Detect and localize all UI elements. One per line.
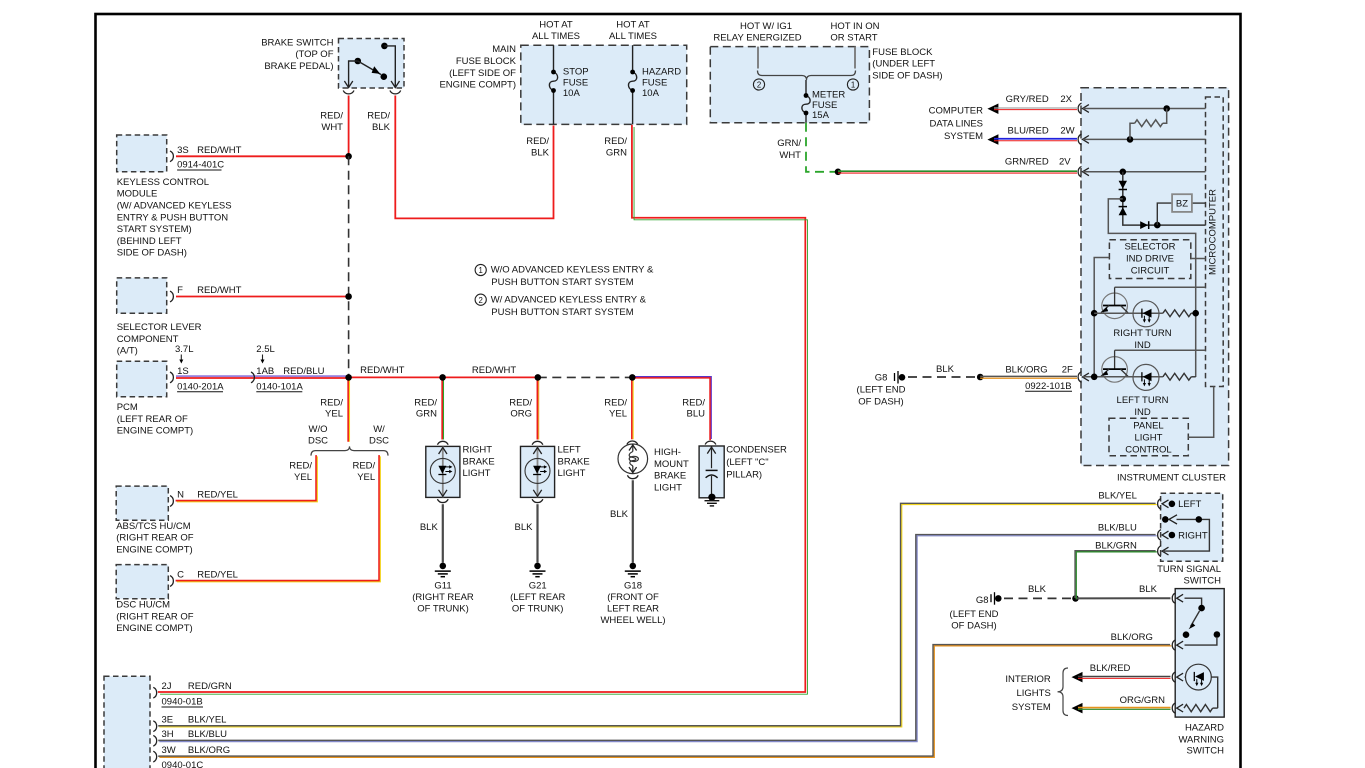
panel light control label <box>1125 420 1171 455</box>
label F RED/WHT <box>177 285 242 296</box>
svg-text:LEFT: LEFT <box>558 445 581 456</box>
svg-text:LEFT REAR: LEFT REAR <box>607 604 659 615</box>
ground reference G8 (hazard) <box>991 592 1002 605</box>
ground G11 label <box>412 581 474 615</box>
svg-text:3H: 3H <box>162 729 174 740</box>
ABS/TCS label <box>116 521 194 556</box>
svg-text:F: F <box>177 285 183 296</box>
connector above left brake light <box>532 441 543 444</box>
label 3.7L with arrow <box>175 344 194 363</box>
meter fuse F3 lead <box>805 80 807 123</box>
svg-text:3E: 3E <box>162 715 174 726</box>
svg-text:FUSE: FUSE <box>642 77 667 88</box>
svg-text:CONTROL: CONTROL <box>1125 444 1171 455</box>
svg-text:DSC HU/CM: DSC HU/CM <box>116 600 170 611</box>
wire ORG/GRN to hazard <box>1078 708 1171 710</box>
label 3E BLK/YEL <box>162 715 227 726</box>
svg-text:RELAY ENERGIZED: RELAY ENERGIZED <box>713 33 801 44</box>
diode D1 (down) <box>1119 181 1127 190</box>
right brake light label <box>463 445 495 480</box>
connector 2J <box>153 687 156 698</box>
condenser C1 box <box>699 446 724 498</box>
panel light control box <box>1109 418 1188 455</box>
svg-text:BLK: BLK <box>1028 584 1047 595</box>
svg-text:SELECTOR LEVER: SELECTOR LEVER <box>117 322 202 333</box>
wire common to BLK/GRN <box>1164 519 1209 551</box>
label RED/YEL (J1) <box>320 398 343 420</box>
ground G11 <box>435 563 451 577</box>
svg-text:LIGHT: LIGHT <box>1135 432 1163 443</box>
svg-text:ENGINE COMPT): ENGINE COMPT) <box>116 544 193 555</box>
selector IND drive label <box>1124 242 1175 277</box>
stop fuse F1 lead <box>553 45 555 124</box>
label BLK (G18) <box>610 509 629 520</box>
svg-text:BRAKE: BRAKE <box>558 456 590 467</box>
wire BLK/BLU to turn signal RIGHT <box>158 535 1157 742</box>
svg-text:BLK/ORG: BLK/ORG <box>1111 632 1153 643</box>
svg-text:BZ: BZ <box>1176 198 1188 209</box>
svg-text:STOP: STOP <box>563 66 589 77</box>
svg-text:WHEEL WELL): WHEEL WELL) <box>600 615 665 626</box>
LED right turn indicator <box>1133 301 1159 327</box>
node RIGHT contact <box>1169 532 1176 539</box>
svg-text:N: N <box>177 490 184 501</box>
svg-text:BLK/YEL: BLK/YEL <box>188 715 227 726</box>
svg-text:G11: G11 <box>434 581 451 592</box>
selector lever label <box>117 322 202 357</box>
svg-text:LIGHT: LIGHT <box>654 482 682 493</box>
right brake light internals <box>430 446 455 497</box>
svg-text:0922-101B: 0922-101B <box>1025 381 1071 392</box>
svg-text:BLK: BLK <box>936 364 955 375</box>
connector 3W <box>153 751 156 762</box>
svg-text:BLK/GRN: BLK/GRN <box>1095 540 1137 551</box>
wire BLK/RED to hazard <box>1078 677 1171 679</box>
high-mount lamp L1 <box>618 444 648 474</box>
label RED/GRN (drop) <box>414 398 437 420</box>
wire dashed vertical (brake feed) <box>348 156 350 377</box>
svg-text:OF DASH): OF DASH) <box>951 621 996 632</box>
svg-text:CONDENSER: CONDENSER <box>726 445 787 456</box>
svg-text:LEFT TURN: LEFT TURN <box>1117 395 1169 406</box>
label BLK/RED <box>1090 663 1131 674</box>
svg-text:ALL TIMES: ALL TIMES <box>532 31 580 42</box>
svg-text:RED/: RED/ <box>320 398 343 409</box>
label G8 (hazard) <box>976 595 989 606</box>
label LEFT <box>1178 499 1201 510</box>
ground G18 <box>625 563 641 577</box>
node junction 3S/brake switch <box>345 153 352 160</box>
svg-text:IND DRIVE: IND DRIVE <box>1126 254 1174 265</box>
transistor Q2 (left turn) <box>1101 350 1128 382</box>
wire BLK high-mount ground <box>632 480 634 562</box>
svg-text:3W: 3W <box>162 745 176 756</box>
label W/ DSC <box>369 424 389 447</box>
svg-text:DATA LINES: DATA LINES <box>930 118 984 129</box>
svg-text:SYSTEM: SYSTEM <box>944 131 983 142</box>
svg-text:BRAKE PEDAL): BRAKE PEDAL) <box>264 61 333 72</box>
hazard fuse F2 <box>628 70 636 93</box>
svg-text:(BEHIND LEFT: (BEHIND LEFT <box>117 236 182 247</box>
svg-text:LIGHTS: LIGHTS <box>1016 688 1050 699</box>
hazard fuse label 10A <box>642 66 681 99</box>
svg-text:FUSE: FUSE <box>563 77 588 88</box>
wire BLK dashed from G8 <box>908 376 980 378</box>
label BLK/YEL <box>1098 491 1137 502</box>
svg-text:CIRCUIT: CIRCUIT <box>1131 266 1170 277</box>
node junction 2X/resistor <box>1163 105 1170 112</box>
svg-text:C: C <box>177 570 184 581</box>
resistor R3 (left turn) <box>1163 373 1196 380</box>
svg-text:WHT: WHT <box>779 150 801 161</box>
buzzer BZ wiring <box>1157 203 1205 225</box>
label GRY/RED 2X <box>1006 94 1073 105</box>
svg-text:COMPUTER: COMPUTER <box>929 106 984 117</box>
label HOT W/ IG1 RELAY ENERGIZED <box>713 21 801 44</box>
svg-text:RED/: RED/ <box>526 136 549 147</box>
wire BLK dashed from G8 (hazard) <box>1004 597 1076 599</box>
connector C at DSC <box>170 576 173 587</box>
meter fuse label 15A <box>812 90 845 122</box>
svg-text:OF TRUNK): OF TRUNK) <box>417 604 469 615</box>
node hazard ON contact <box>1214 631 1221 638</box>
svg-text:G21: G21 <box>529 581 547 592</box>
ground G21 <box>530 563 546 577</box>
node junction emitter rail (right) <box>1091 310 1098 317</box>
svg-text:BLK: BLK <box>610 509 629 520</box>
ground G18 label <box>600 581 665 627</box>
svg-text:(LEFT END: (LEFT END <box>857 385 906 396</box>
high-mount light label <box>654 447 689 493</box>
svg-text:MODULE: MODULE <box>117 189 158 200</box>
svg-text:YEL: YEL <box>609 409 627 420</box>
svg-text:BLK/BLU: BLK/BLU <box>1098 523 1137 534</box>
connector BLK/ORG entry (hazard) <box>1172 640 1183 651</box>
svg-text:PANEL: PANEL <box>1133 420 1163 431</box>
svg-text:BLU/RED: BLU/RED <box>1008 125 1049 136</box>
svg-text:SELECTOR: SELECTOR <box>1124 242 1175 253</box>
svg-text:RED/: RED/ <box>367 110 390 121</box>
connector below brake switch right <box>390 91 401 94</box>
transistor Q1 (right turn) <box>1101 287 1128 318</box>
label 1S <box>177 366 189 377</box>
node junction bus J3 <box>535 374 542 381</box>
svg-text:HAZARD: HAZARD <box>642 66 681 77</box>
svg-text:BLU: BLU <box>687 409 706 420</box>
left brake light internals <box>525 446 550 497</box>
fuse block (under dash) label <box>872 47 942 82</box>
wire branch to supply rail <box>1108 199 1195 377</box>
stop fuse label 10A <box>563 66 589 99</box>
wire GRN/WHT dashed <box>806 123 836 172</box>
svg-text:(FRONT OF: (FRONT OF <box>607 592 659 603</box>
svg-text:2W: 2W <box>1060 125 1074 136</box>
brake switch SW1 box <box>339 39 405 89</box>
hazard switch arm <box>1183 598 1205 638</box>
brace DSC split <box>311 446 388 455</box>
svg-text:ABS/TCS HU/CM: ABS/TCS HU/CM <box>116 521 191 532</box>
label 3S RED/WHT <box>177 145 242 156</box>
hazard fuse F2 lead <box>632 45 634 124</box>
note circled 1 <box>475 264 654 288</box>
wire RED/WHT bus J1-J3 <box>349 376 538 378</box>
label 3H BLK/BLU <box>162 729 228 740</box>
connector number 0940-01C <box>162 760 204 768</box>
condenser label <box>726 445 787 481</box>
svg-text:PUSH BUTTON START SYSTEM: PUSH BUTTON START SYSTEM <box>491 307 633 318</box>
svg-text:OF DASH): OF DASH) <box>858 396 903 407</box>
wire RED/BLK brake switch to stop fuse <box>395 96 553 219</box>
connector 2W entry <box>1078 134 1089 145</box>
svg-text:GRY/RED: GRY/RED <box>1006 94 1049 105</box>
node junction D3/BZ <box>1154 222 1161 229</box>
connector number 0914-401C <box>177 160 224 171</box>
svg-text:RED/YEL: RED/YEL <box>197 490 238 501</box>
ABS/TCS HU/CM box <box>116 486 168 520</box>
label GRN/RED 2V <box>1005 157 1071 168</box>
wire right-turn base <box>1115 286 1206 288</box>
wire right-turn rail <box>1094 312 1163 314</box>
svg-text:HIGH-: HIGH- <box>654 447 681 458</box>
svg-text:BLK/YEL: BLK/YEL <box>1098 491 1137 502</box>
svg-text:RED/WHT: RED/WHT <box>360 365 405 376</box>
svg-text:0140-101A: 0140-101A <box>256 381 303 392</box>
label BLK/ORG (hazard row) <box>1111 632 1153 643</box>
wire diode chain <box>1123 172 1206 225</box>
wire RED/WHT brake switch to junction <box>348 96 350 157</box>
svg-text:(A/T): (A/T) <box>117 346 138 357</box>
svg-text:(TOP OF: (TOP OF <box>295 49 333 60</box>
svg-text:PCM: PCM <box>117 402 138 413</box>
svg-text:YEL: YEL <box>357 472 375 483</box>
svg-text:(UNDER LEFT: (UNDER LEFT <box>872 59 935 70</box>
svg-text:RED/: RED/ <box>320 110 343 121</box>
node common wire dot <box>1196 516 1203 523</box>
connector BLK entry (hazard) <box>1172 593 1183 604</box>
condenser ground (internal) <box>705 494 720 506</box>
PCM label <box>117 402 194 437</box>
svg-text:HOT W/ IG1: HOT W/ IG1 <box>740 21 792 32</box>
keyless control module box <box>117 135 167 172</box>
connector 1AB inline <box>251 372 254 383</box>
label RED/BLU (drop) <box>682 398 705 420</box>
label W/O DSC <box>308 424 328 447</box>
connector above condenser <box>705 441 716 444</box>
connector 3S at keyless module <box>170 151 173 162</box>
ground G21 label <box>510 581 565 615</box>
wire 3S RED/WHT <box>176 155 349 157</box>
wire panel light to microcomputer <box>1188 387 1213 438</box>
svg-text:2V: 2V <box>1059 157 1071 168</box>
brake switch right contact <box>381 43 399 88</box>
main fuse block label <box>439 44 516 90</box>
svg-text:0940-01B: 0940-01B <box>162 697 203 708</box>
svg-text:HOT IN ON: HOT IN ON <box>831 21 880 32</box>
buzzer BZ box <box>1172 194 1192 212</box>
svg-text:MICROCOMPUTER: MICROCOMPUTER <box>1208 189 1219 275</box>
resistor R4 (hazard) <box>1184 705 1218 712</box>
svg-text:2J: 2J <box>162 681 172 692</box>
label 2.5L with arrow <box>256 344 275 363</box>
svg-text:YEL: YEL <box>294 472 312 483</box>
svg-text:MAIN: MAIN <box>492 44 516 55</box>
svg-text:(RIGHT REAR: (RIGHT REAR <box>412 592 474 603</box>
svg-text:SWITCH: SWITCH <box>1187 746 1225 757</box>
svg-text:MOUNT: MOUNT <box>654 459 689 470</box>
label BLU/RED 2W <box>1008 125 1075 136</box>
svg-text:LEFT: LEFT <box>1178 499 1201 510</box>
connector below left brake light <box>532 499 543 502</box>
svg-text:LIGHT: LIGHT <box>463 468 491 479</box>
svg-text:15A: 15A <box>812 110 830 121</box>
connector number 0140-101A <box>256 381 303 392</box>
connector BLK/RED entry (hazard) <box>1172 672 1183 683</box>
condenser C1 internals <box>706 446 718 494</box>
ground reference G8 (cluster) <box>895 371 906 384</box>
svg-text:BRAKE: BRAKE <box>463 456 495 467</box>
note circled 2 <box>475 294 646 318</box>
connector number 0922-101B <box>1025 381 1072 392</box>
stop fuse F1 <box>549 70 557 93</box>
meter fuse F3 <box>802 93 810 115</box>
label (LEFT END OF DASH) cluster <box>857 385 906 408</box>
right brake light lamp box <box>426 446 460 497</box>
svg-text:1: 1 <box>479 266 483 275</box>
wire F RED/WHT <box>176 296 349 298</box>
svg-text:RED/WHT: RED/WHT <box>197 145 242 156</box>
svg-text:PILLAR): PILLAR) <box>726 469 762 480</box>
turn signal switch label <box>1157 564 1221 586</box>
wire BLK/GRN to turn signal <box>1075 551 1157 599</box>
connector common entry <box>1158 546 1169 557</box>
left brake light lamp box <box>521 446 555 497</box>
svg-text:RIGHT: RIGHT <box>1178 530 1208 541</box>
wire 2W line <box>1083 138 1206 140</box>
wire selector left to emitter rail <box>1094 258 1109 377</box>
svg-text:SWITCH: SWITCH <box>1184 575 1222 586</box>
brake switch arm <box>358 61 387 80</box>
wire BLK/ORG to hazard switch <box>158 645 1171 758</box>
svg-text:RED/: RED/ <box>352 460 375 471</box>
label BLK (G11) <box>420 522 439 533</box>
svg-text:GRN/: GRN/ <box>777 138 801 149</box>
svg-text:1AB: 1AB <box>256 366 274 377</box>
connector 2X entry <box>1078 103 1089 114</box>
wire GRN/RED to 2V <box>838 171 1077 173</box>
wire selector right to microcomputer <box>1191 258 1206 260</box>
connector ORG/GRN entry (hazard) <box>1172 703 1183 714</box>
label RED/ORG (drop) <box>509 398 532 420</box>
node junction G8/2F <box>977 374 984 381</box>
wire RED/BLK below stop fuse label <box>526 136 549 159</box>
label COMPUTER DATA LINES SYSTEM <box>929 106 984 143</box>
wire BLK to hazard switch <box>1076 597 1171 599</box>
svg-text:2: 2 <box>479 296 483 305</box>
label GRN/WHT <box>777 138 801 161</box>
svg-text:W/: W/ <box>373 424 385 435</box>
label RED/BLK <box>367 110 390 133</box>
svg-text:2F: 2F <box>1062 365 1073 376</box>
wire BLK left brake light ground <box>536 504 538 562</box>
svg-text:RED/: RED/ <box>414 398 437 409</box>
svg-text:BLK: BLK <box>372 122 391 133</box>
diode D3 (right) <box>1140 221 1149 229</box>
svg-text:COMPONENT: COMPONENT <box>117 334 179 345</box>
wire RED/GRN to right brake light <box>442 377 443 439</box>
svg-text:G8: G8 <box>976 595 989 606</box>
svg-text:GRN/RED: GRN/RED <box>1005 157 1049 168</box>
svg-text:2: 2 <box>757 81 761 90</box>
connector LEFT entry <box>1158 498 1169 509</box>
svg-text:BLK: BLK <box>1139 584 1158 595</box>
svg-text:RED/: RED/ <box>604 136 627 147</box>
brake switch left contact <box>344 58 361 88</box>
svg-text:OF TRUNK): OF TRUNK) <box>512 604 564 615</box>
node junction 2V/diodes <box>1120 169 1127 176</box>
connector N at ABS/TCS <box>170 496 173 507</box>
svg-text:FUSE BLOCK: FUSE BLOCK <box>872 47 933 58</box>
connector RIGHT entry <box>1158 530 1169 541</box>
brace interior lights <box>1058 668 1069 716</box>
svg-text:SIDE OF DASH): SIDE OF DASH) <box>872 70 942 81</box>
label RED/WHT <box>320 110 343 133</box>
relay stub 2 <box>757 47 759 69</box>
svg-text:BLK: BLK <box>515 522 534 533</box>
resistor R2 (right turn) <box>1163 310 1196 317</box>
svg-text:W/ ADVANCED KEYLESS ENTRY &: W/ ADVANCED KEYLESS ENTRY & <box>491 294 647 305</box>
circled 2 <box>753 79 764 90</box>
label RIGHT <box>1178 530 1208 541</box>
svg-text:0140-201A: 0140-201A <box>177 381 224 392</box>
label MICROCOMPUTER <box>1208 189 1219 275</box>
svg-text:OR START: OR START <box>830 33 877 44</box>
svg-text:BLK/BLU: BLK/BLU <box>188 729 227 740</box>
node junction GRN wire <box>835 169 842 176</box>
svg-text:START SYSTEM): START SYSTEM) <box>117 224 192 235</box>
svg-text:SIDE OF DASH): SIDE OF DASH) <box>117 248 187 259</box>
node junction R2/supply <box>1192 310 1199 317</box>
connector F at selector lever <box>170 291 173 302</box>
svg-text:GRN: GRN <box>606 148 627 159</box>
svg-text:(LEFT "C": (LEFT "C" <box>726 457 768 468</box>
hazard switch label <box>1178 723 1224 757</box>
svg-text:G8: G8 <box>875 372 888 383</box>
svg-text:RED/: RED/ <box>682 398 705 409</box>
svg-text:3S: 3S <box>177 145 189 156</box>
label ORG/GRN <box>1120 695 1166 706</box>
wire RED/GRN hazard fuse to 2J bus <box>158 125 808 694</box>
label BLK (dashed, hazard) <box>1028 584 1047 595</box>
svg-text:0914-401C: 0914-401C <box>177 160 224 171</box>
svg-text:ORG: ORG <box>510 409 532 420</box>
svg-text:(LEFT END: (LEFT END <box>950 609 999 620</box>
label (LEFT END OF DASH) hazard <box>950 609 999 632</box>
node LEFT contact <box>1169 501 1176 508</box>
keyless control module label <box>117 177 232 259</box>
label C RED/YEL <box>177 570 238 581</box>
svg-text:LIGHT: LIGHT <box>558 468 586 479</box>
svg-text:10A: 10A <box>563 88 581 99</box>
svg-text:INSTRUMENT CLUSTER: INSTRUMENT CLUSTER <box>1117 473 1226 484</box>
wire RED/BLU bus to condenser <box>632 377 711 441</box>
selector IND drive circuit box <box>1109 240 1190 279</box>
connector below brake switch left <box>343 91 354 94</box>
label RED/WHT (bus right) <box>472 365 517 376</box>
label BLK (hazard) <box>1139 584 1158 595</box>
wire RED/YEL J1 down <box>348 377 349 441</box>
svg-text:PUSH BUTTON START SYSTEM: PUSH BUTTON START SYSTEM <box>491 277 633 288</box>
svg-text:BLK/ORG: BLK/ORG <box>188 745 230 756</box>
